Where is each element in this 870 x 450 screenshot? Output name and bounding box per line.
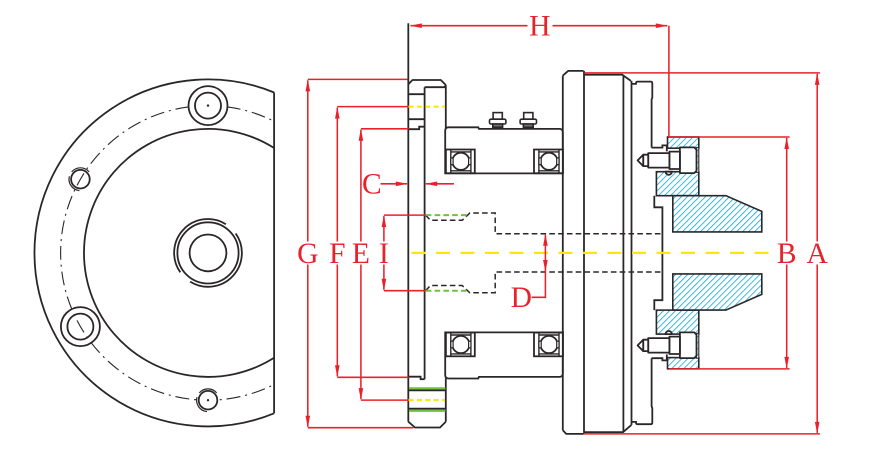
svg-text:A: A: [807, 238, 829, 270]
svg-text:C: C: [362, 168, 382, 200]
svg-text:H: H: [529, 11, 550, 43]
svg-text:B: B: [777, 238, 797, 270]
svg-text:E: E: [352, 238, 370, 270]
svg-text:F: F: [329, 238, 345, 270]
svg-text:G: G: [297, 238, 318, 270]
svg-text:I: I: [379, 238, 389, 270]
svg-text:D: D: [511, 282, 532, 314]
